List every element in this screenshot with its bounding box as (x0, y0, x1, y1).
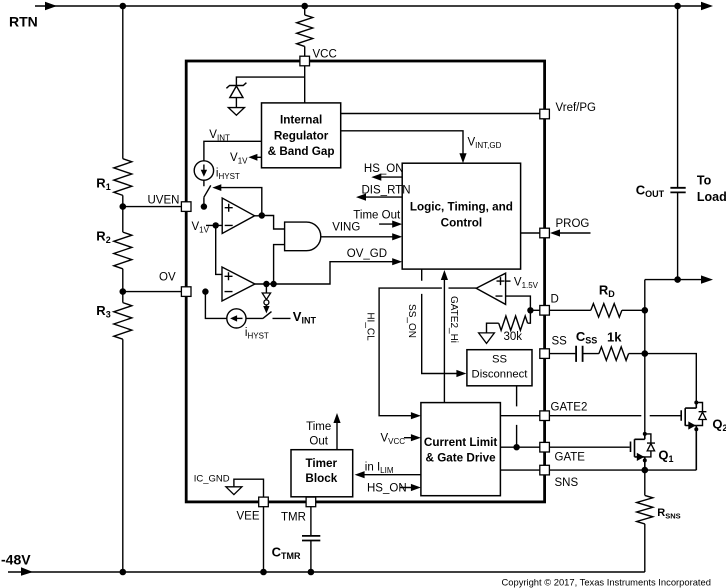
pin VEE (237, 497, 269, 522)
svg-text:Block: Block (305, 472, 337, 485)
wire VVCC into current limit (381, 433, 421, 447)
resistor RSNS (637, 470, 681, 572)
resistor 30k (499, 310, 531, 343)
svg-text:R3: R3 (96, 303, 110, 320)
pin D (540, 294, 559, 316)
wire VING to logic (321, 221, 402, 240)
svg-text:R1: R1 (96, 175, 110, 192)
pin Vref/PG (540, 102, 596, 119)
wire -48V bottom rail (8, 567, 645, 575)
wire V1V reference to UV comparator (192, 221, 223, 275)
wire output to load (645, 275, 713, 283)
node OV input (202, 288, 208, 294)
svg-text:RD: RD (599, 282, 615, 299)
svg-text:RSNS: RSNS (657, 507, 680, 521)
IC boundary box (186, 61, 544, 502)
wire left divider rail (122, 6, 124, 572)
svg-text:Regulator: Regulator (274, 129, 329, 142)
wire SNS from current limit to pin (500, 469, 539, 471)
node V1.5V reference stub (506, 276, 539, 290)
svg-text:Logic, Timing, and: Logic, Timing, and (410, 201, 513, 214)
svg-text:VINT: VINT (209, 129, 230, 143)
svg-text:Q1: Q1 (658, 448, 673, 465)
wire Vref/PG from regulator (341, 113, 540, 115)
wire Time Out into logic (353, 210, 402, 228)
svg-text:VING: VING (332, 221, 360, 233)
wire D pin to node (530, 309, 539, 311)
SS disconnect block (467, 350, 532, 386)
svg-text:Time: Time (306, 421, 331, 433)
transistor Q1 (631, 432, 674, 470)
node OV comparator output dots (263, 281, 269, 287)
node D sense (527, 307, 533, 313)
svg-text:Vref/PG: Vref/PG (556, 102, 597, 114)
svg-text:1k: 1k (607, 330, 622, 345)
svg-text:-48V: -48V (1, 552, 31, 568)
svg-text:Q2: Q2 (712, 417, 726, 434)
svg-text:VCC: VCC (313, 49, 337, 61)
svg-text:OV_GD: OV_GD (347, 248, 387, 260)
node SNS junction (642, 467, 649, 474)
wire to Q2 drain (645, 354, 697, 403)
wire DIS_RTN out of logic (356, 185, 411, 201)
wire PROG external arrow (550, 218, 591, 237)
svg-text:Time Out: Time Out (353, 210, 401, 222)
wire VEE pin to -48V rail (263, 507, 265, 572)
wire GATE2 external with crossover break (549, 415, 680, 417)
wire SS_ON to SS disconnect (406, 269, 466, 377)
wire GATE2_Hi to logic (441, 270, 459, 403)
svg-text:IC_GND: IC_GND (194, 474, 230, 485)
wire HS_ON out of logic (364, 163, 404, 181)
svg-text:VEE: VEE (237, 511, 260, 523)
wire UV comparator to AND gate (255, 216, 285, 230)
svg-text:HS_ON: HS_ON (364, 163, 404, 175)
wire OV pin to current source 2 (205, 292, 226, 319)
wire in ILIM to timer block (355, 462, 421, 479)
junction dots on rails (120, 3, 127, 10)
switch hysteresis upper (204, 180, 211, 206)
wire comparator minus input to D pin node (506, 296, 531, 310)
wire switch control stub (262, 284, 270, 313)
wire HI_CL from comparator output to current limit (364, 288, 476, 419)
wire GATE external (549, 446, 629, 448)
svg-text:VVCC: VVCC (381, 433, 406, 447)
node UVEN input wire (201, 203, 207, 209)
node 1k junction (642, 350, 649, 357)
svg-text:SS_ON: SS_ON (406, 304, 417, 338)
svg-text:R2: R2 (96, 228, 110, 245)
wire GATE from current limit to pin (500, 446, 539, 448)
node UV comparator output (259, 212, 265, 218)
wire SNS external (549, 469, 696, 471)
op-amp OV comparator (222, 267, 255, 301)
pin UVEN (148, 195, 192, 212)
svg-text:HS_ON: HS_ON (367, 482, 407, 494)
svg-text:Control: Control (441, 216, 483, 229)
wire RTN top rail (35, 2, 713, 10)
svg-text:Disconnect: Disconnect (472, 369, 529, 381)
svg-text:GATE2_Hi: GATE2_Hi (448, 296, 459, 343)
resistor R2 (96, 228, 132, 268)
op-amp UV comparator (222, 198, 254, 234)
pin GATE (540, 442, 585, 463)
pin GATE2 (540, 402, 588, 421)
current source iHYST upper (194, 161, 240, 181)
svg-text:Load: Load (697, 190, 726, 204)
wire VINT to current source (204, 129, 262, 161)
svg-text:iHYST: iHYST (245, 327, 269, 341)
svg-text:Copyright © 2017, Texas Instru: Copyright © 2017, Texas Instruments Inco… (502, 577, 711, 588)
wire comparator feedback to switch (212, 184, 261, 215)
current limit and gate drive block (421, 403, 501, 496)
wire SS disconnect to gate node (516, 386, 518, 447)
svg-text:To: To (697, 173, 712, 187)
ground arrow below 30k (479, 323, 499, 343)
wire V1V output arrow from regulator (230, 152, 261, 166)
resistor VCC feed from RTN (297, 6, 313, 56)
op-amp 1.5V comparator (476, 273, 505, 304)
svg-text:V1.5V: V1.5V (514, 276, 539, 290)
timer block (291, 450, 353, 497)
wire drain column (644, 280, 646, 434)
svg-text:SS: SS (552, 336, 568, 348)
logic timing and control block (402, 163, 520, 269)
svg-text:CTMR: CTMR (272, 545, 301, 562)
svg-text:Internal: Internal (280, 114, 322, 127)
zener diode at VCC input (226, 77, 304, 115)
wire OV from divider (123, 291, 191, 293)
resistor RD (549, 282, 644, 317)
svg-text:& Gate Drive: & Gate Drive (426, 452, 497, 465)
node RD output junction (642, 307, 649, 314)
svg-text:D: D (551, 294, 559, 306)
op-amp U1 internal regulator block (262, 103, 341, 168)
resistor R1 (96, 159, 132, 196)
svg-text:in ILIM: in ILIM (365, 462, 394, 476)
pin TMR (281, 497, 316, 523)
ground IC_GND symbol (194, 474, 264, 498)
svg-text:TMR: TMR (281, 512, 306, 524)
svg-text:GATE: GATE (555, 452, 586, 464)
svg-text:& Band Gap: & Band Gap (268, 145, 335, 158)
wire UVEN from divider (123, 206, 191, 208)
pin OV (159, 272, 191, 297)
svg-text:V1V: V1V (192, 221, 210, 235)
wire VCC pin to Internal Regulator (304, 66, 306, 103)
svg-text:HI_CL: HI_CL (364, 312, 375, 341)
wire TMR pin to CTMR (310, 507, 312, 536)
wire OV comparator output to OV_GD (255, 248, 402, 284)
AND gate (285, 222, 321, 251)
svg-text:Current Limit: Current Limit (424, 436, 497, 449)
capacitor CSS (549, 329, 597, 362)
svg-text:SS: SS (492, 353, 508, 365)
svg-text:iHYST: iHYST (216, 168, 240, 182)
svg-text:SNS: SNS (555, 477, 579, 489)
switch hysteresis lower to VINT (246, 309, 316, 326)
pin PROG (540, 228, 550, 238)
svg-text:UVEN: UVEN (148, 195, 180, 207)
pin VCC (300, 49, 337, 66)
svg-text:RTN: RTN (9, 13, 38, 29)
wire GATE2 from current limit to pin (500, 415, 539, 417)
svg-text:V1V: V1V (230, 152, 248, 166)
pin SS (540, 336, 567, 359)
wire VINT,GD to logic block (341, 131, 502, 163)
svg-text:PROG: PROG (556, 218, 590, 230)
pin SNS (540, 465, 579, 489)
svg-text:VINT: VINT (293, 309, 317, 326)
svg-text:30k: 30k (504, 331, 523, 343)
svg-text:VINT,GD: VINT,GD (468, 137, 502, 151)
wire HS_ON into current limit (367, 482, 421, 494)
capacitor COUT (636, 6, 686, 280)
transistor Q2 (681, 401, 726, 471)
svg-text:Timer: Timer (305, 457, 337, 470)
wire AND gate lower input (274, 245, 285, 284)
wire PROG from logic to pin (521, 232, 540, 234)
resistor 1k (583, 330, 645, 361)
svg-text:GATE2: GATE2 (551, 402, 588, 414)
resistor R3 (96, 303, 132, 340)
svg-text:CSS: CSS (576, 329, 597, 346)
node gate junction (513, 444, 519, 450)
svg-text:Out: Out (309, 435, 328, 447)
wire Time Out from timer (306, 413, 340, 450)
svg-text:OV: OV (159, 272, 176, 284)
capacitor CTMR (272, 536, 321, 572)
current source iHYST lower (227, 309, 269, 341)
svg-text:DIS_RTN: DIS_RTN (362, 185, 411, 197)
svg-text:COUT: COUT (636, 182, 665, 199)
